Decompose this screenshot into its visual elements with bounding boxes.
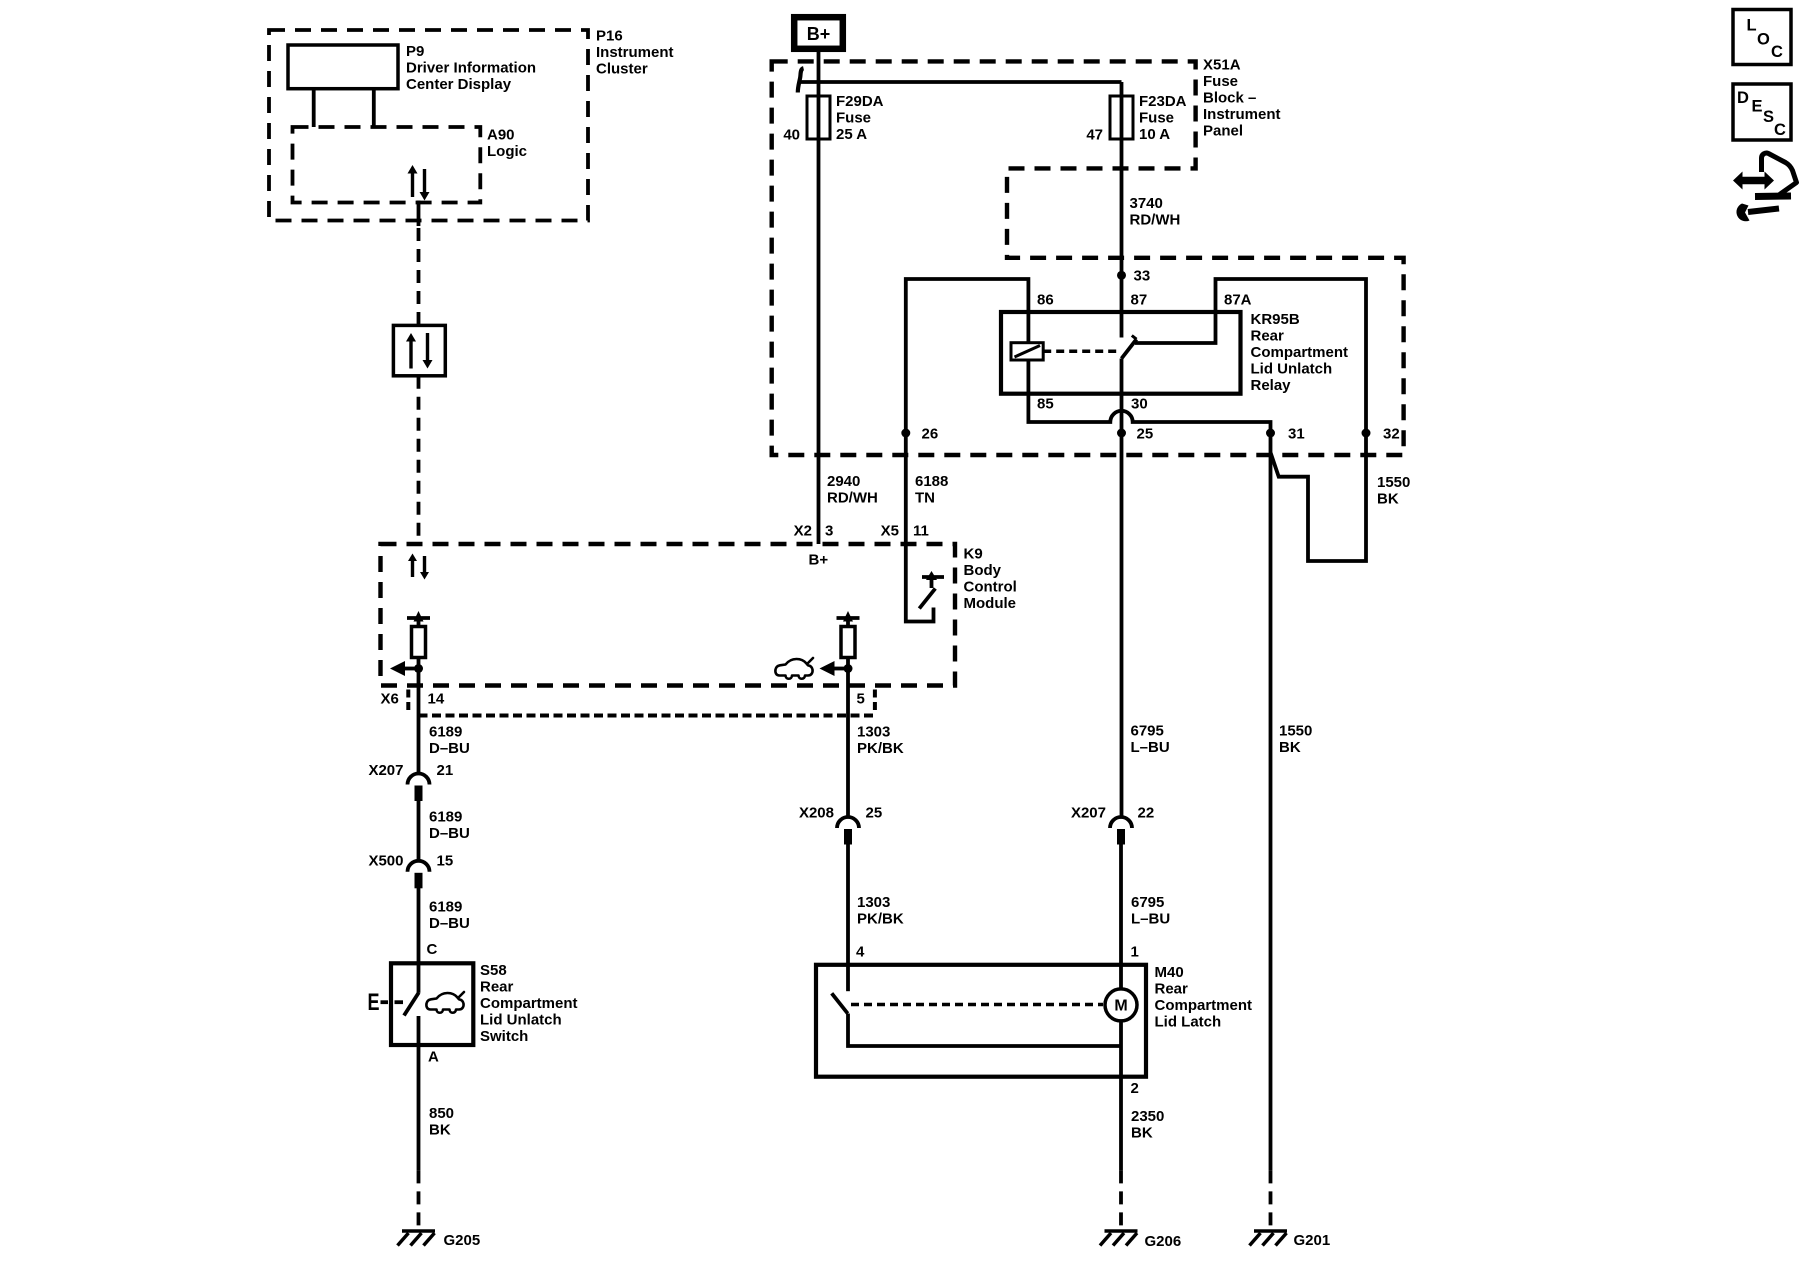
svg-text:TN: TN [915, 490, 935, 507]
svg-text:S: S [1763, 108, 1774, 126]
svg-text:RD/WH: RD/WH [827, 490, 878, 507]
svg-text:O: O [1757, 31, 1770, 49]
svg-text:M40: M40 [1155, 964, 1184, 981]
svg-text:Lid Unlatch: Lid Unlatch [1251, 361, 1333, 378]
svg-text:BK: BK [1377, 491, 1399, 508]
svg-text:11: 11 [913, 523, 929, 540]
svg-text:D: D [1737, 89, 1749, 107]
svg-text:6189: 6189 [429, 724, 462, 741]
svg-text:31: 31 [1288, 426, 1305, 443]
svg-text:Driver Information: Driver Information [406, 60, 536, 77]
svg-text:L: L [1747, 17, 1757, 35]
svg-text:2350: 2350 [1131, 1108, 1164, 1125]
svg-text:Block –: Block – [1203, 90, 1256, 107]
svg-text:KR95B: KR95B [1251, 311, 1300, 328]
svg-text:Lid Unlatch: Lid Unlatch [480, 1012, 562, 1029]
svg-text:Instrument: Instrument [1203, 106, 1281, 123]
svg-text:1303: 1303 [857, 894, 890, 911]
svg-text:2940: 2940 [827, 473, 860, 490]
svg-text:X5: X5 [881, 523, 899, 540]
svg-text:RD/WH: RD/WH [1130, 212, 1181, 229]
svg-text:26: 26 [922, 426, 939, 443]
svg-text:21: 21 [437, 762, 454, 779]
svg-text:PK/BK: PK/BK [857, 740, 904, 757]
svg-text:5: 5 [857, 691, 865, 708]
svg-text:D–BU: D–BU [429, 915, 470, 932]
svg-text:X208: X208 [799, 805, 834, 822]
svg-text:1: 1 [1131, 944, 1139, 961]
svg-text:6188: 6188 [915, 473, 948, 490]
svg-text:PK/BK: PK/BK [857, 911, 904, 928]
svg-text:85: 85 [1037, 396, 1054, 413]
svg-text:Instrument: Instrument [596, 44, 674, 61]
svg-text:22: 22 [1138, 805, 1155, 822]
svg-text:C: C [1771, 43, 1783, 61]
svg-text:25: 25 [1137, 426, 1154, 443]
svg-text:4: 4 [856, 944, 865, 961]
svg-text:Fuse: Fuse [836, 110, 871, 127]
svg-text:Center Display: Center Display [406, 76, 512, 93]
svg-text:Logic: Logic [487, 143, 527, 160]
svg-text:Control: Control [964, 579, 1017, 596]
svg-text:40: 40 [783, 127, 800, 144]
svg-text:Rear: Rear [480, 979, 514, 996]
svg-text:6189: 6189 [429, 899, 462, 916]
svg-text:Relay: Relay [1251, 377, 1292, 394]
svg-text:B+: B+ [807, 24, 831, 44]
svg-text:D–BU: D–BU [429, 825, 470, 842]
svg-text:A90: A90 [487, 127, 515, 144]
svg-text:A: A [428, 1049, 439, 1066]
svg-text:L–BU: L–BU [1131, 739, 1170, 756]
svg-text:Fuse: Fuse [1203, 73, 1238, 90]
svg-text:3: 3 [825, 523, 833, 540]
svg-text:25 A: 25 A [836, 126, 867, 143]
svg-text:25: 25 [866, 805, 883, 822]
svg-text:F29DA: F29DA [836, 93, 884, 110]
svg-text:Rear: Rear [1155, 981, 1189, 998]
svg-text:X207: X207 [368, 762, 403, 779]
svg-text:E: E [1752, 98, 1763, 116]
svg-text:6795: 6795 [1131, 894, 1164, 911]
svg-text:D–BU: D–BU [429, 740, 470, 757]
svg-text:K9: K9 [964, 546, 983, 563]
svg-text:P9: P9 [406, 43, 424, 60]
svg-text:Module: Module [964, 595, 1017, 612]
svg-text:14: 14 [428, 691, 445, 708]
svg-text:C: C [427, 941, 438, 958]
svg-text:X51A: X51A [1203, 57, 1241, 74]
svg-text:M: M [1114, 998, 1127, 1015]
svg-text:15: 15 [437, 853, 454, 870]
svg-text:X6: X6 [381, 691, 399, 708]
svg-text:32: 32 [1383, 426, 1400, 443]
svg-text:1303: 1303 [857, 724, 890, 741]
svg-text:30: 30 [1131, 396, 1148, 413]
svg-text:BK: BK [1279, 739, 1301, 756]
svg-text:Body: Body [964, 562, 1002, 579]
svg-text:L–BU: L–BU [1131, 911, 1170, 928]
svg-text:BK: BK [429, 1122, 451, 1139]
svg-text:P16: P16 [596, 28, 623, 45]
svg-text:6795: 6795 [1131, 723, 1164, 740]
svg-text:Compartment: Compartment [1155, 997, 1253, 1014]
svg-text:G205: G205 [444, 1232, 481, 1249]
svg-text:87: 87 [1131, 292, 1148, 309]
svg-text:Panel: Panel [1203, 123, 1243, 140]
svg-text:X207: X207 [1071, 805, 1106, 822]
svg-text:2: 2 [1131, 1080, 1139, 1097]
svg-text:Rear: Rear [1251, 328, 1285, 345]
svg-text:6189: 6189 [429, 809, 462, 826]
svg-text:Switch: Switch [480, 1028, 528, 1045]
svg-text:X2: X2 [794, 523, 812, 540]
svg-text:S58: S58 [480, 962, 507, 979]
svg-text:B+: B+ [809, 552, 829, 569]
svg-text:Compartment: Compartment [480, 995, 578, 1012]
svg-text:E: E [368, 989, 380, 1016]
svg-text:33: 33 [1134, 268, 1151, 285]
svg-text:G206: G206 [1145, 1233, 1182, 1250]
svg-text:Cluster: Cluster [596, 61, 648, 78]
svg-text:47: 47 [1086, 127, 1103, 144]
svg-text:Lid Latch: Lid Latch [1155, 1014, 1222, 1031]
svg-text:X500: X500 [368, 853, 403, 870]
svg-text:Fuse: Fuse [1139, 110, 1174, 127]
svg-text:3740: 3740 [1130, 195, 1163, 212]
svg-text:10 A: 10 A [1139, 126, 1170, 143]
svg-text:1550: 1550 [1279, 723, 1312, 740]
svg-text:G201: G201 [1294, 1232, 1331, 1249]
svg-text:1550: 1550 [1377, 474, 1410, 491]
svg-text:87A: 87A [1224, 292, 1252, 309]
svg-text:F23DA: F23DA [1139, 93, 1187, 110]
svg-text:86: 86 [1037, 292, 1054, 309]
svg-text:850: 850 [429, 1105, 454, 1122]
svg-text:BK: BK [1131, 1125, 1153, 1142]
svg-text:C: C [1774, 121, 1786, 139]
svg-text:Compartment: Compartment [1251, 344, 1349, 361]
